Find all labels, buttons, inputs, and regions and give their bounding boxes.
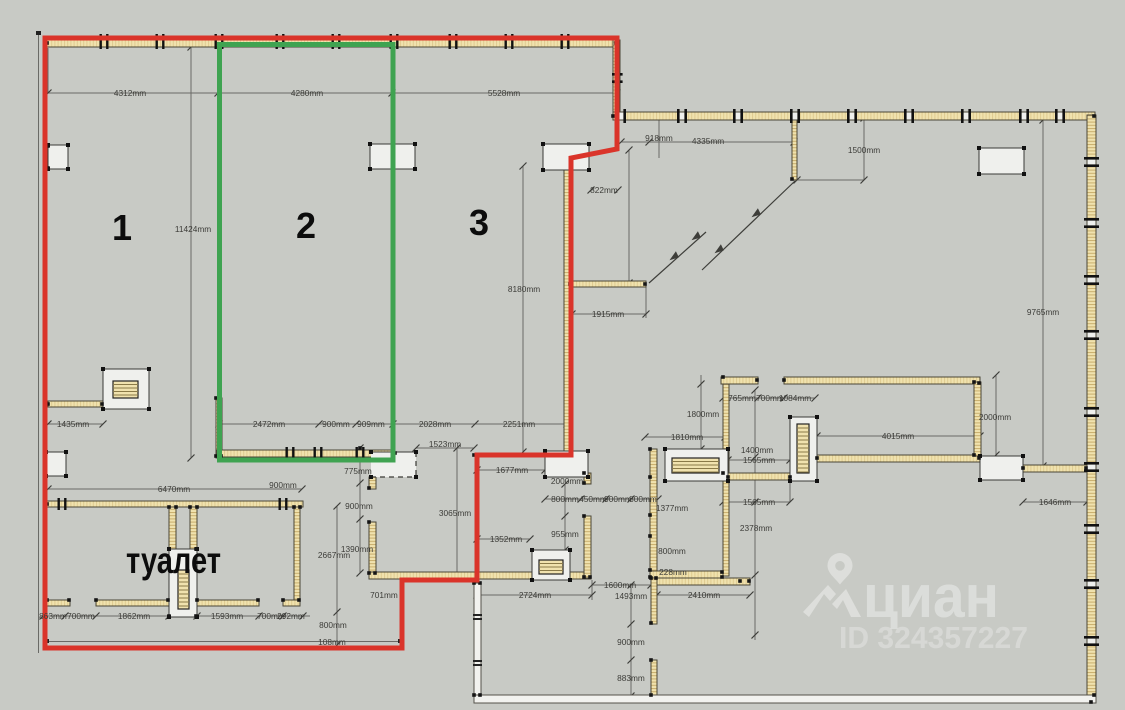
svg-text:1565mm: 1565mm [743, 497, 775, 507]
svg-text:1435mm: 1435mm [57, 419, 89, 429]
svg-text:4312mm: 4312mm [114, 88, 146, 98]
svg-text:800mm: 800mm [629, 494, 657, 504]
svg-text:765mm: 765mm [728, 393, 756, 403]
svg-text:775mm: 775mm [344, 466, 372, 476]
wall x653 [650, 449, 657, 578]
svg-text:2410mm: 2410mm [688, 590, 720, 600]
svg-text:900mm: 900mm [604, 494, 632, 504]
column top right [979, 148, 1024, 174]
svg-text:4015mm: 4015mm [882, 431, 914, 441]
column bottom right [980, 456, 1023, 480]
svg-text:228mm: 228mm [659, 567, 687, 577]
svg-text:1593mm: 1593mm [211, 611, 243, 621]
svg-text:800mm: 800mm [658, 546, 686, 556]
svg-text:1500mm: 1500mm [848, 145, 880, 155]
svg-text:2378mm: 2378mm [740, 523, 772, 533]
wall under red [564, 157, 570, 455]
svg-text:292mm: 292mm [277, 611, 305, 621]
svg-text:6470mm: 6470mm [158, 484, 190, 494]
svg-text:8180mm: 8180mm [508, 284, 540, 294]
column mid top [543, 144, 589, 170]
green rectangle [220, 45, 394, 461]
mid wall 1915 [570, 281, 646, 287]
wall under red top-right [613, 40, 620, 116]
svg-text:1400mm: 1400mm [741, 445, 773, 455]
wall connector [728, 473, 790, 480]
svg-text:1352mm: 1352mm [490, 534, 522, 544]
svg-text:4280mm: 4280mm [291, 88, 323, 98]
svg-text:822mm: 822mm [590, 185, 618, 195]
stub below dashed column [369, 477, 376, 489]
inner thin line bottom [47, 641, 401, 643]
svg-text:863mm: 863mm [39, 611, 67, 621]
svg-text:2667mm: 2667mm [318, 550, 350, 560]
svg-text:4335mm: 4335mm [692, 136, 724, 146]
svg-text:1810mm: 1810mm [671, 432, 703, 442]
svg-text:1862mm: 1862mm [118, 611, 150, 621]
bottom wall [474, 695, 1096, 703]
svg-text:909mm: 909mm [357, 419, 385, 429]
wall tick pairs: top-right wall [617, 113, 626, 120]
tick pair on red vertical x617 [612, 73, 615, 76]
svg-text:2000mm: 2000mm [979, 412, 1011, 422]
shaft near 955 [532, 550, 570, 580]
wall x726 [723, 377, 729, 576]
svg-text:1565mm: 1565mm [743, 455, 775, 465]
wall col-right [1023, 465, 1087, 472]
shaft box right [790, 417, 817, 481]
white wall vertical [474, 583, 481, 696]
wall long 784 [784, 377, 980, 384]
red outline [45, 38, 617, 648]
shaft box left (1810) [665, 449, 728, 481]
svg-text:1523mm: 1523mm [429, 439, 461, 449]
wall 4015 [817, 455, 980, 462]
watermark logo pin [803, 553, 861, 617]
svg-text:955mm: 955mm [551, 529, 579, 539]
diagonal dimension lines [649, 181, 795, 283]
svg-text:883mm: 883mm [617, 673, 645, 683]
column left wall A [48, 145, 68, 169]
svg-text:900mm: 900mm [345, 501, 373, 511]
svg-text:450mm: 450mm [579, 494, 607, 504]
svg-text:2000mm: 2000mm [551, 476, 583, 486]
wall 1435 [48, 401, 103, 407]
svg-text:918mm: 918mm [645, 133, 673, 143]
svg-text:700mm: 700mm [67, 611, 95, 621]
wall tick pairs: toilet top wall [58, 498, 288, 510]
svg-text:туалет: туалет [126, 540, 221, 581]
svg-text:1600mm: 1600mm [604, 580, 636, 590]
svg-text:ID 324357227: ID 324357227 [839, 620, 1028, 655]
green bottom wall [217, 450, 395, 457]
svg-text:11424mm: 11424mm [175, 224, 211, 234]
svg-text:900mm: 900mm [322, 419, 350, 429]
toilet bottom d [283, 600, 300, 606]
toilet top wall [47, 501, 303, 507]
wall x654 low b [651, 660, 657, 696]
outer thin line left [38, 33, 40, 653]
shaft in toilet [169, 549, 197, 617]
svg-text:2: 2 [296, 205, 316, 246]
svg-text:900mm: 900mm [617, 637, 645, 647]
toilet right wall [294, 507, 300, 600]
wall x587 [584, 516, 591, 578]
toilet bottom c [197, 600, 259, 606]
svg-text:1800mm: 1800mm [687, 409, 719, 419]
svg-text:2251mm: 2251mm [503, 419, 535, 429]
wall 228 [650, 571, 723, 578]
wall tick pairs: right wall [1088, 158, 1096, 167]
top wall [47, 40, 617, 47]
stub wall top [792, 120, 797, 180]
svg-text:3: 3 [469, 202, 489, 243]
svg-text:800mm: 800mm [551, 494, 579, 504]
wall y574 [369, 572, 591, 579]
svg-text:9765mm: 9765mm [1027, 307, 1059, 317]
dimension labels [39, 88, 1071, 683]
svg-text:1677mm: 1677mm [496, 465, 528, 475]
column at red corner [545, 451, 588, 477]
svg-text:1493mm: 1493mm [615, 591, 647, 601]
wall x374 [369, 522, 376, 574]
svg-text:900mm: 900mm [269, 480, 297, 490]
svg-text:2472mm: 2472mm [253, 419, 285, 429]
toilet vert a [169, 507, 176, 549]
toilet bottom b [96, 600, 169, 606]
column on green line [370, 144, 415, 169]
svg-text:1915mm: 1915mm [592, 309, 624, 319]
svg-text:2028mm: 2028mm [419, 419, 451, 429]
tick pairs on green bottom wall [286, 447, 365, 460]
svg-text:1646mm: 1646mm [1039, 497, 1071, 507]
top-right wall [613, 112, 1095, 120]
wall x978 [974, 382, 981, 456]
wall x654 low a [651, 578, 657, 624]
column left wall B [46, 452, 66, 476]
shaft pillar upper-left [103, 369, 149, 409]
svg-text:701mm: 701mm [370, 590, 398, 600]
stub x587 [584, 473, 591, 484]
green left wall [216, 398, 222, 458]
toilet bottom a [47, 600, 70, 606]
svg-text:5528mm: 5528mm [488, 88, 520, 98]
svg-text:1084mm: 1084mm [779, 393, 811, 403]
wall tick pairs: top wall [100, 34, 570, 49]
svg-text:1: 1 [112, 207, 132, 248]
svg-text:1377mm: 1377mm [656, 503, 688, 513]
wall 2410 [657, 578, 750, 585]
dashed column [371, 452, 416, 477]
svg-text:2724mm: 2724mm [519, 590, 551, 600]
svg-text:800mm: 800mm [319, 620, 347, 630]
svg-text:3065mm: 3065mm [439, 508, 471, 518]
svg-text:108mm: 108mm [318, 637, 346, 647]
toilet vert b [190, 507, 197, 549]
right wall [1087, 115, 1096, 703]
wall short 721 [721, 377, 758, 384]
